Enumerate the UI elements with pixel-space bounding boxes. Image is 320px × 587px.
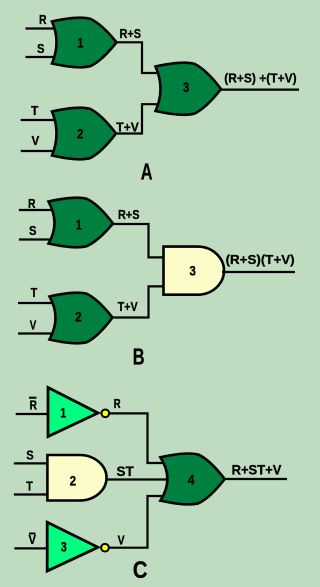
svg-text:V: V [32, 133, 40, 148]
svg-text:R: R [114, 396, 121, 411]
wire R+S to gate 3 (B) [112, 224, 165, 257]
svg-text:R+S: R+S [118, 207, 140, 222]
overline of R [29, 397, 37, 399]
or-gate 1 (A) [52, 18, 117, 68]
svg-text:S: S [37, 41, 45, 56]
wire S to gate 1 (A) [26, 56, 61, 58]
and-gate 2 (C) [47, 455, 106, 501]
or-gate 1 (B) [49, 198, 114, 248]
inverter bubble 3 (C) [101, 544, 109, 552]
wire V to gate 4 (C) [109, 496, 163, 548]
svg-text:2: 2 [75, 308, 82, 324]
svg-text:1: 1 [77, 35, 83, 51]
svg-text:T: T [31, 103, 38, 118]
svg-text:3: 3 [183, 79, 189, 95]
or-gate 4 (C) [160, 454, 224, 505]
svg-text:ST: ST [117, 463, 135, 479]
output wire (B) [222, 271, 295, 273]
wire V-bar to inverter 3 (C) [14, 547, 50, 549]
svg-text:R: R [28, 196, 36, 211]
svg-text:4: 4 [188, 471, 195, 487]
svg-text:R: R [39, 12, 47, 27]
or-gate 3 (A) [156, 63, 222, 115]
svg-text:T: T [31, 285, 38, 300]
svg-text:A: A [141, 159, 153, 185]
svg-text:3: 3 [189, 263, 196, 279]
wire R-bar to inverter 1 (C) [16, 413, 50, 415]
wire T to gate 2 (C) [14, 493, 50, 495]
or-gate 2 (A) [52, 108, 116, 160]
wire S to gate 2 (C) [14, 462, 50, 464]
svg-text:V: V [29, 532, 37, 547]
svg-text:T+V: T+V [118, 299, 138, 314]
svg-text:R: R [30, 398, 38, 413]
inverter 3 (C) [47, 522, 98, 571]
or-gate 2 (B) [50, 293, 113, 344]
inverter 1 (C) [48, 388, 98, 437]
inverter bubble 1 (C) [101, 409, 109, 417]
svg-text:R+S: R+S [120, 26, 142, 41]
svg-text:T: T [26, 479, 33, 494]
svg-text:S: S [26, 448, 34, 463]
svg-text:1: 1 [76, 216, 82, 232]
svg-text:V: V [30, 318, 37, 333]
wire T+V to gate 3 (B) [112, 286, 166, 317]
wire R to gate 1 (A) [26, 27, 61, 29]
wire ST to gate 4 (C) [106, 478, 168, 480]
wire T+V to gate 3 (A) [115, 104, 158, 133]
svg-text:2: 2 [77, 126, 84, 142]
wire V to gate 2 (B) [18, 332, 56, 334]
wire S to gate 1 (B) [19, 238, 56, 240]
wire R+S to gate 3 (A) [116, 42, 158, 73]
wire T to gate 2 (A) [21, 119, 60, 121]
svg-text:R+ST+V: R+ST+V [232, 462, 282, 478]
wire R to gate 1 (B) [19, 209, 56, 211]
svg-text:(R+S)(T+V): (R+S)(T+V) [226, 252, 295, 267]
wire V to gate 2 (A) [21, 150, 60, 152]
svg-text:(R+S) +(T+V): (R+S) +(T+V) [224, 70, 296, 85]
svg-text:V: V [118, 532, 125, 547]
overline of V [29, 533, 36, 535]
svg-text:B: B [133, 344, 145, 370]
svg-text:2: 2 [70, 473, 77, 489]
svg-text:S: S [29, 223, 37, 238]
and-gate 3 (B) [164, 247, 225, 295]
wire T to gate 2 (B) [18, 302, 56, 304]
svg-text:C: C [133, 557, 148, 584]
svg-text:3: 3 [61, 539, 67, 555]
wire R to gate 4 (C) [109, 413, 163, 463]
svg-text:1: 1 [60, 405, 66, 421]
output wire (C) [224, 478, 287, 480]
output wire (A) [220, 88, 299, 90]
